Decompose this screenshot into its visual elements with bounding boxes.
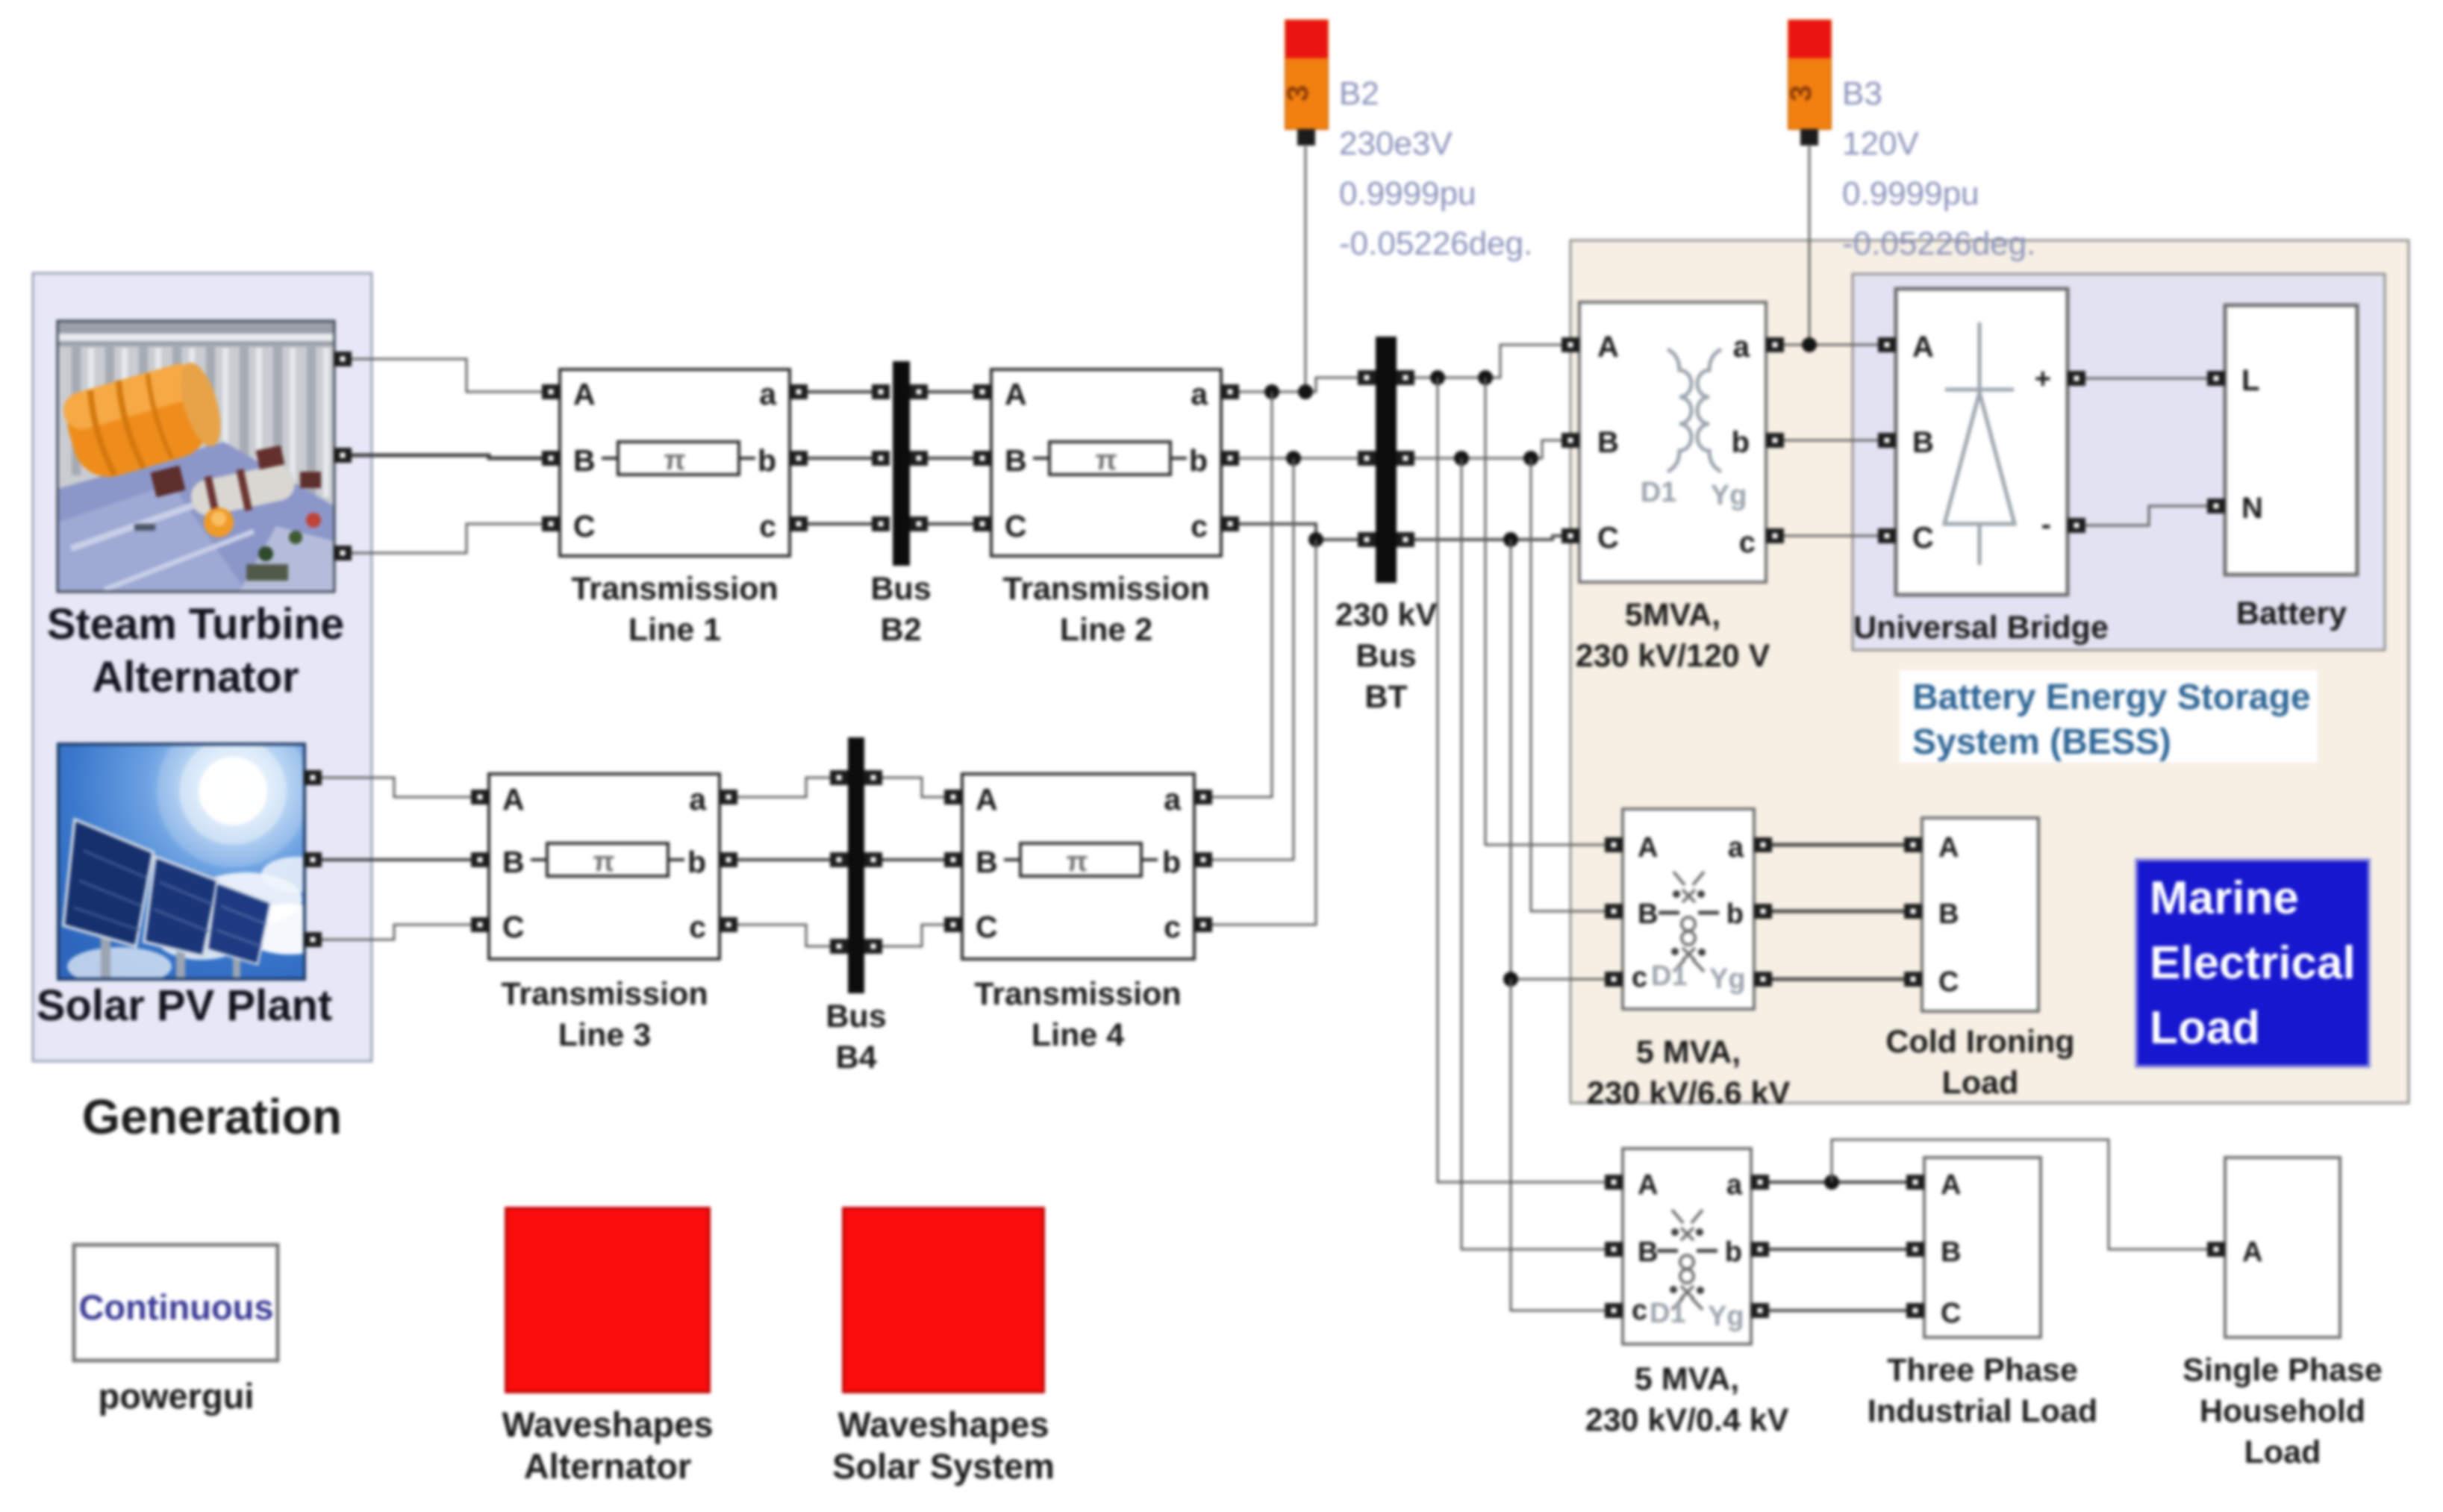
battery block — [2207, 305, 2357, 575]
bus BT caption — [1335, 597, 1438, 715]
wire solar A to TL3 A — [322, 778, 471, 797]
wire drop to transformer2 B — [1531, 458, 1605, 911]
bus B4 caption — [826, 999, 886, 1075]
powergui caption — [99, 1376, 255, 1416]
svg-text:c: c — [1632, 1295, 1647, 1326]
svg-text:Solar PV Plant: Solar PV Plant — [37, 981, 332, 1030]
three phase industrial load block — [1906, 1158, 2041, 1337]
generation subsystem panel — [33, 273, 372, 1061]
bus B2 caption — [870, 571, 931, 648]
wire B2 meter drop — [1305, 146, 1307, 392]
wire transformer1 b to bridge B — [1784, 440, 1878, 442]
wire TL3 b to bus B4 — [737, 858, 830, 861]
wire steam B to TL1 B — [352, 455, 542, 458]
wire bus BT c to transformer1 C — [1414, 536, 1561, 540]
svg-text:Waveshapes: Waveshapes — [837, 1405, 1049, 1444]
generation caption — [82, 1089, 342, 1144]
transmission line 3 block — [471, 774, 737, 959]
svg-text:B4: B4 — [836, 1040, 877, 1075]
wire drop to transformer3 B — [1461, 458, 1605, 1249]
wire solar B to TL3 B — [322, 858, 471, 861]
svg-text:Battery Energy Storage: Battery Energy Storage — [1912, 678, 2311, 717]
svg-text:230 kV: 230 kV — [1335, 597, 1438, 633]
svg-text:5 MVA,: 5 MVA, — [1635, 1361, 1739, 1397]
svg-text:Yg: Yg — [1711, 480, 1747, 511]
svg-text:π: π — [664, 445, 685, 476]
wire bus BT a to transformer1 A — [1414, 345, 1561, 378]
beige marine panel — [1570, 240, 2409, 1103]
svg-text:Transmission: Transmission — [571, 571, 778, 607]
wire TL4 c riser — [1212, 540, 1316, 925]
wire steam A to TL1 A — [352, 359, 542, 392]
svg-text:B2: B2 — [1339, 75, 1379, 112]
svg-text:Cold Ironing: Cold Ironing — [1885, 1024, 2074, 1060]
junction a-row B2 meter — [1298, 384, 1313, 399]
svg-text:C: C — [573, 509, 596, 543]
transmission line 1 caption — [571, 571, 778, 648]
svg-text:Alternator: Alternator — [92, 653, 299, 702]
svg-text:Continuous: Continuous — [78, 1287, 273, 1327]
junction household branch — [1824, 1175, 1839, 1190]
svg-text:c: c — [759, 509, 776, 543]
wire bus B2 to TL2 A — [928, 390, 973, 393]
transmission line 2 block — [973, 369, 1239, 556]
svg-text:b: b — [1162, 845, 1181, 879]
svg-text:a: a — [759, 377, 777, 411]
steam turbine alternator photo — [57, 321, 334, 592]
wire B3 meter drop — [1809, 146, 1811, 345]
svg-text:Alternator: Alternator — [524, 1446, 692, 1486]
svg-text:5MVA,: 5MVA, — [1625, 597, 1720, 633]
svg-text:Bus: Bus — [870, 571, 931, 607]
svg-text:a: a — [689, 782, 707, 816]
wire bus B2 to TL2 B — [928, 457, 973, 460]
wire drop to transformer3 A — [1438, 378, 1605, 1182]
svg-text:0.9999pu: 0.9999pu — [1339, 175, 1476, 212]
svg-text:A: A — [573, 377, 596, 411]
wire transformer3 c to industrial C — [1769, 1309, 1906, 1312]
wire bus B4 to TL4 B — [882, 858, 944, 861]
steam turbine caption — [47, 600, 345, 702]
single phase household caption — [2183, 1352, 2383, 1470]
svg-text:Line 1: Line 1 — [628, 612, 721, 648]
svg-text:Single Phase: Single Phase — [2183, 1352, 2383, 1388]
wire TL3 c to bus B4 — [737, 925, 830, 946]
svg-text:b: b — [687, 845, 706, 879]
wire steam C to TL1 C — [352, 524, 542, 553]
svg-text:a: a — [1164, 782, 1182, 816]
svg-text:B: B — [976, 845, 998, 879]
junction c-row drop C — [1503, 532, 1518, 547]
svg-text:C: C — [1597, 522, 1619, 554]
wire solar C to TL3 C — [322, 925, 471, 940]
svg-text:A: A — [1941, 1169, 1961, 1201]
powergui block — [74, 1245, 278, 1361]
svg-text:A: A — [1638, 832, 1658, 863]
wire transformer1 c to bridge C — [1784, 535, 1878, 537]
transformer 1 caption — [1576, 597, 1770, 674]
svg-text:3: 3 — [1282, 85, 1314, 101]
svg-text:c: c — [689, 910, 706, 944]
svg-text:C: C — [1938, 966, 1959, 998]
svg-text:B: B — [1638, 1237, 1658, 1268]
svg-text:C: C — [1005, 509, 1027, 543]
svg-text:B3: B3 — [1842, 75, 1882, 112]
svg-text:A: A — [1938, 832, 1959, 863]
junction transformer2 C branch — [1503, 972, 1518, 987]
wire TL3 a to bus B4 — [737, 778, 830, 797]
wire drop to transformer3 C — [1511, 979, 1605, 1310]
wire transformer3 a to industrial A — [1769, 1181, 1906, 1184]
wire TL1 c to bus B2 — [808, 522, 872, 525]
svg-text:D1: D1 — [1650, 1298, 1686, 1329]
universal bridge block — [1878, 289, 2085, 595]
three phase industrial caption — [1868, 1352, 2097, 1429]
svg-text:B2: B2 — [881, 612, 922, 648]
svg-text:C: C — [1912, 522, 1934, 554]
svg-text:b: b — [1726, 899, 1744, 930]
svg-text:a: a — [1726, 1169, 1743, 1201]
transformer 5MVA 230kV/0.4kV — [1605, 1149, 1769, 1344]
wire TL4 a riser — [1212, 392, 1272, 797]
svg-text:230 kV/6.6 kV: 230 kV/6.6 kV — [1587, 1075, 1791, 1111]
svg-text:a: a — [1733, 331, 1750, 363]
svg-text:Yg: Yg — [1708, 1301, 1744, 1332]
svg-text:π: π — [593, 846, 614, 878]
svg-text:Line 3: Line 3 — [558, 1017, 651, 1053]
wire bus BT b to transformer1 B — [1414, 440, 1561, 458]
wire transformer1 a to bridge A — [1784, 344, 1878, 346]
svg-text:A: A — [502, 782, 525, 816]
svg-text:B: B — [1597, 426, 1619, 459]
transmission line 3 caption — [501, 976, 708, 1053]
svg-text:C: C — [976, 910, 998, 944]
svg-text:B: B — [1005, 443, 1027, 478]
junction a-row TL4 riser — [1264, 384, 1279, 399]
svg-text:D1: D1 — [1651, 960, 1688, 992]
wire bridge plus to battery L — [2085, 378, 2207, 380]
svg-text:L: L — [2241, 364, 2259, 397]
svg-text:B: B — [573, 443, 596, 478]
svg-text:BT: BT — [1364, 679, 1407, 715]
transmission line 4 block — [944, 774, 1212, 959]
svg-text:Marine: Marine — [2150, 872, 2299, 924]
junction b-row drop B04 — [1454, 451, 1469, 466]
svg-text:-: - — [2041, 508, 2051, 541]
svg-text:C: C — [1941, 1298, 1961, 1329]
svg-text:Household: Household — [2200, 1393, 2365, 1429]
svg-text:Line 4: Line 4 — [1032, 1017, 1124, 1053]
wire TL1 a to bus B2 — [808, 390, 872, 393]
svg-text:Steam Turbine: Steam Turbine — [47, 600, 345, 649]
svg-text:c: c — [1191, 509, 1208, 543]
svg-text:Transmission: Transmission — [501, 976, 708, 1012]
wire transformer2 c to cold ironing C — [1772, 978, 1904, 981]
svg-text:System (BESS): System (BESS) — [1912, 722, 2171, 762]
svg-text:N: N — [2241, 492, 2263, 525]
bus B2 — [872, 361, 928, 566]
svg-text:π: π — [1066, 846, 1088, 878]
svg-text:230e3V: 230e3V — [1339, 125, 1453, 162]
svg-text:C: C — [502, 910, 525, 944]
junction b-row drop B66 — [1523, 451, 1538, 466]
wire bus B4 to TL4 A — [882, 778, 944, 797]
wire transformer3 b to industrial B — [1769, 1248, 1906, 1251]
svg-text:Yg: Yg — [1709, 963, 1746, 995]
svg-text:B: B — [1912, 426, 1934, 459]
svg-text:Transmission: Transmission — [1002, 571, 1209, 607]
cold ironing caption — [1885, 1024, 2074, 1101]
svg-text:B: B — [1938, 899, 1959, 930]
svg-text:c: c — [1632, 962, 1647, 993]
svg-text:A: A — [1597, 331, 1619, 363]
wire TL2 c to bus BT — [1239, 524, 1358, 540]
wire branch to household A — [1832, 1140, 2207, 1249]
svg-text:Three Phase: Three Phase — [1887, 1352, 2078, 1388]
solar pv plant photo — [58, 715, 339, 986]
B2 measurement labels — [1339, 75, 1532, 262]
wire TL4 b riser — [1212, 458, 1294, 860]
universal bridge caption — [1853, 610, 2109, 646]
svg-text:Load: Load — [2150, 1002, 2260, 1054]
waveshapes solar system scope block — [843, 1208, 1043, 1392]
solar pv caption — [37, 981, 332, 1030]
svg-text:B: B — [1941, 1237, 1961, 1268]
svg-text:Load: Load — [2244, 1434, 2321, 1470]
transmission line 1 block — [542, 369, 808, 556]
B3 measurement labels — [1842, 75, 2035, 262]
waveshapes solar caption — [832, 1405, 1055, 1486]
marine electrical load annotation — [2136, 860, 2369, 1066]
wire bus B4 to TL4 C — [882, 925, 944, 946]
wire TL1 b to bus B2 — [808, 457, 872, 460]
svg-text:230 kV/120 V: 230 kV/120 V — [1576, 638, 1770, 674]
svg-text:120V: 120V — [1842, 125, 1919, 162]
svg-text:Bus: Bus — [826, 999, 886, 1034]
junction a-row drop A66 — [1478, 370, 1493, 385]
transformer 5MVA 230kV/6.6kV — [1605, 809, 1772, 1009]
transmission line 4 caption — [974, 976, 1181, 1053]
svg-text:b: b — [1189, 443, 1208, 478]
wire TL2 a to bus BT — [1239, 378, 1358, 392]
BESS annotation — [1900, 670, 2318, 763]
svg-text:A: A — [2242, 1237, 2262, 1268]
svg-text:b: b — [1732, 426, 1750, 459]
svg-text:0.9999pu: 0.9999pu — [1842, 175, 1979, 212]
waveshapes alternator caption — [502, 1405, 713, 1486]
svg-text:powergui: powergui — [99, 1376, 255, 1416]
bus B4 — [830, 737, 882, 993]
svg-text:-0.05226deg.: -0.05226deg. — [1842, 225, 2035, 262]
wire transformer2 b to cold ironing B — [1772, 910, 1904, 913]
svg-text:Transmission: Transmission — [974, 976, 1181, 1012]
cold ironing load block — [1904, 818, 2038, 1011]
svg-text:A: A — [976, 782, 998, 816]
wire bridge minus to battery N — [2085, 506, 2207, 525]
BESS panel — [1853, 274, 2385, 650]
svg-text:3: 3 — [1785, 85, 1818, 101]
transformer 2 caption — [1587, 1034, 1791, 1111]
svg-text:5 MVA,: 5 MVA, — [1636, 1034, 1741, 1070]
wire drop to transformer2 A — [1485, 378, 1605, 845]
svg-text:230 kV/0.4 kV: 230 kV/0.4 kV — [1585, 1402, 1789, 1438]
svg-text:Industrial Load: Industrial Load — [1868, 1393, 2097, 1429]
svg-text:Generation: Generation — [82, 1089, 342, 1144]
svg-text:B: B — [1638, 899, 1658, 930]
solar pv output ports — [304, 770, 322, 947]
bus BT — [1358, 337, 1414, 583]
svg-text:+: + — [2035, 363, 2051, 395]
svg-text:π: π — [1095, 445, 1117, 476]
waveshapes alternator scope block — [506, 1208, 709, 1392]
svg-text:Bus: Bus — [1355, 638, 1416, 674]
transformer 5MVA 230kV/120V — [1561, 302, 1784, 582]
battery caption — [2236, 596, 2347, 631]
svg-text:D1: D1 — [1641, 477, 1677, 508]
svg-text:c: c — [1164, 910, 1181, 944]
junction b-row TL4 riser — [1286, 451, 1301, 466]
junction c-row TL4 riser — [1308, 532, 1323, 547]
steam turbine output ports — [334, 352, 352, 560]
svg-text:A: A — [1912, 331, 1934, 363]
svg-text:c: c — [1739, 526, 1756, 559]
svg-text:-0.05226deg.: -0.05226deg. — [1339, 225, 1532, 262]
wire TL2 b to bus BT — [1239, 457, 1358, 460]
svg-text:A: A — [1638, 1169, 1658, 1201]
single phase household load block — [2207, 1158, 2340, 1337]
svg-text:Battery: Battery — [2236, 596, 2347, 631]
svg-text:Universal Bridge: Universal Bridge — [1853, 610, 2109, 646]
wire drop to transformer2 C — [1511, 540, 1605, 979]
junction B3 meter — [1802, 337, 1817, 352]
transformer 3 caption — [1585, 1361, 1789, 1438]
transmission line 2 caption — [1002, 571, 1209, 648]
wire bus B2 to TL2 C — [928, 522, 973, 525]
voltage measurement B2 — [1282, 20, 1328, 146]
svg-text:A: A — [1005, 377, 1027, 411]
svg-text:B: B — [502, 845, 525, 879]
svg-text:b: b — [758, 443, 776, 478]
svg-text:a: a — [1728, 832, 1744, 863]
svg-text:Load: Load — [1942, 1065, 2019, 1101]
svg-text:Electrical: Electrical — [2150, 937, 2356, 989]
wire transformer2 a to cold ironing A — [1772, 843, 1904, 847]
svg-text:b: b — [1725, 1237, 1742, 1268]
svg-text:Waveshapes: Waveshapes — [502, 1405, 713, 1444]
voltage measurement B3 — [1785, 20, 1831, 146]
svg-text:a: a — [1191, 377, 1208, 411]
junction a-row drop A04 — [1430, 370, 1445, 385]
svg-text:Solar System: Solar System — [832, 1446, 1055, 1486]
svg-text:Line 2: Line 2 — [1060, 612, 1152, 648]
